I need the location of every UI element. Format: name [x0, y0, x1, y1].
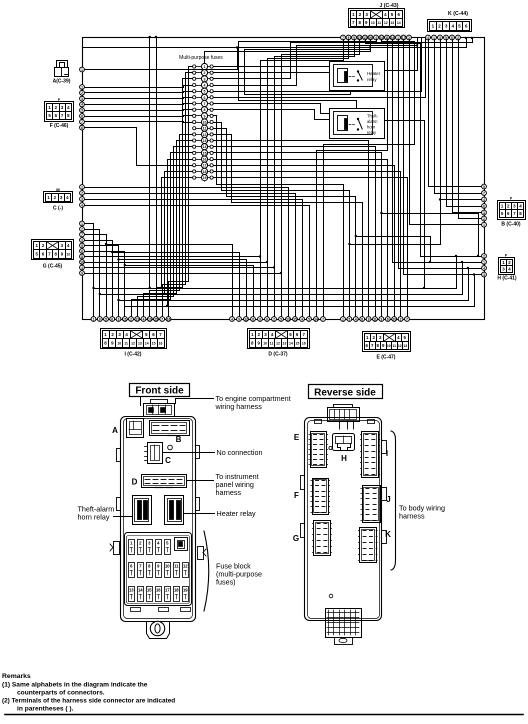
- svg-text:15: 15: [203, 151, 207, 155]
- wire: [85, 110, 193, 111]
- terminal I-5: [116, 317, 121, 322]
- terminal C-1: [80, 185, 85, 190]
- terminal D-5: [258, 317, 263, 322]
- svg-text:K (C-44): K (C-44): [448, 11, 468, 17]
- fuse slot 3: [147, 540, 153, 555]
- svg-text:F (C-46): F (C-46): [50, 123, 69, 129]
- svg-text:1: 1: [342, 317, 344, 321]
- terminal B-4: [482, 204, 487, 209]
- wire: [85, 200, 303, 317]
- fuse slot 11: [174, 563, 180, 578]
- heater relay RY1: [330, 62, 385, 91]
- connector F (C-46) mark: [58, 98, 61, 102]
- terminal G-3: [80, 232, 85, 237]
- terminal C-2: [80, 191, 85, 196]
- wire: [85, 194, 296, 317]
- wire: [124, 264, 254, 317]
- svg-text:14: 14: [145, 342, 149, 346]
- reverse small mark: [329, 594, 333, 598]
- svg-text:10: 10: [66, 253, 70, 257]
- connector G (C-45): [32, 240, 74, 270]
- terminal I-12: [160, 317, 165, 322]
- terminal D-12: [307, 317, 312, 322]
- wire: [447, 40, 482, 207]
- svg-text:1: 1: [93, 317, 95, 321]
- svg-text:11: 11: [203, 127, 207, 131]
- svg-text:19: 19: [203, 176, 207, 180]
- fuse slot 4: [156, 540, 162, 555]
- wire: [355, 235, 432, 263]
- front fuse block body: [121, 417, 196, 622]
- wire: [160, 178, 193, 290]
- svg-text:15: 15: [293, 317, 297, 321]
- wire: [205, 46, 372, 63]
- terminal B-7: [482, 222, 487, 227]
- connector J (C-43): [349, 9, 405, 28]
- fuse 4: [193, 82, 214, 88]
- fuse slot 15: [147, 587, 153, 602]
- terminal F-2: [80, 90, 85, 95]
- terminal D-13: [314, 317, 319, 322]
- connector K (C-44): [428, 20, 472, 32]
- wire: [214, 39, 419, 86]
- terminal D-1: [230, 317, 235, 322]
- wire: [163, 172, 193, 296]
- terminal I-6: [122, 317, 127, 322]
- svg-text:D: D: [132, 478, 138, 487]
- terminal G-6: [80, 249, 85, 254]
- terminal B-2: [482, 191, 487, 196]
- wire: [435, 40, 482, 194]
- svg-text:17: 17: [203, 164, 207, 168]
- terminal H-1: [482, 254, 487, 259]
- svg-text:3: 3: [118, 317, 120, 321]
- wire: [459, 40, 482, 219]
- terminal B-6: [482, 216, 487, 221]
- terminal H-2: [482, 260, 487, 265]
- terminal F-6: [80, 114, 85, 119]
- terminal I-11: [154, 317, 159, 322]
- bottom rule: [5, 714, 523, 716]
- wire: [214, 172, 401, 317]
- connector K (C-44) label: [448, 11, 468, 17]
- wire: [85, 272, 283, 274]
- terminal J-8: [379, 35, 384, 40]
- svg-text:18: 18: [203, 170, 207, 174]
- svg-text:13: 13: [129, 588, 134, 593]
- wire: [268, 40, 349, 317]
- svg-text:8: 8: [81, 255, 83, 259]
- wire: [85, 206, 310, 317]
- fuse 17: [193, 162, 214, 168]
- svg-text:15: 15: [147, 588, 152, 593]
- svg-text:12: 12: [183, 564, 188, 569]
- terminal K-3: [438, 35, 443, 40]
- svg-text:Reverse side: Reverse side: [314, 388, 376, 399]
- svg-text:14: 14: [138, 588, 143, 593]
- wire: [261, 40, 344, 317]
- terminal J-1: [341, 35, 346, 40]
- svg-text:counterparts of connectors.: counterparts of connectors.: [17, 690, 105, 697]
- connector C (-) mark: [56, 188, 60, 192]
- fuse 16: [193, 156, 214, 162]
- svg-text:7: 7: [483, 191, 485, 195]
- theft-alarm horn relay RY2: [330, 109, 385, 139]
- svg-text:16: 16: [203, 158, 207, 162]
- terminal I-13: [166, 317, 171, 322]
- svg-text:9: 9: [204, 114, 206, 118]
- connector H (C-41) mark: [505, 254, 508, 258]
- svg-text:Front side: Front side: [135, 386, 184, 397]
- svg-text:2: 2: [81, 227, 83, 231]
- wire: [214, 66, 330, 68]
- wire: [214, 39, 426, 98]
- wire: [214, 166, 395, 317]
- terminal F-8: [80, 125, 85, 130]
- svg-text:2: 2: [81, 91, 83, 95]
- terminal D-11: [300, 317, 305, 322]
- terminal G-2: [80, 227, 85, 232]
- wire: [85, 261, 269, 263]
- wire: [85, 224, 94, 317]
- svg-text:6: 6: [483, 204, 485, 208]
- wire: [239, 40, 377, 109]
- front connector D: [132, 475, 187, 488]
- svg-text:5: 5: [483, 185, 485, 189]
- svg-text:4: 4: [204, 84, 206, 88]
- svg-text:7: 7: [81, 120, 83, 124]
- wire: [85, 188, 289, 317]
- fuse slot 1: [129, 540, 135, 555]
- svg-text:1: 1: [81, 85, 83, 89]
- terminal E-11: [405, 317, 410, 322]
- svg-text:4: 4: [81, 203, 83, 207]
- svg-text:16: 16: [159, 342, 163, 346]
- wire: [105, 243, 233, 317]
- fuse 2: [193, 70, 214, 76]
- svg-text:5: 5: [204, 90, 206, 94]
- svg-text:13: 13: [203, 139, 207, 143]
- terminal J-6: [368, 35, 373, 40]
- wire: [155, 36, 157, 295]
- terminal I-1: [91, 317, 96, 322]
- terminal D-9: [286, 317, 291, 322]
- terminal E-8: [385, 317, 390, 322]
- terminal J-5: [363, 35, 368, 40]
- fuse slot 16: [156, 587, 162, 602]
- fuse 7: [193, 100, 214, 106]
- fuse 12: [193, 131, 214, 137]
- svg-text:harness: harness: [399, 512, 425, 521]
- terminal I-10: [147, 317, 152, 322]
- wire: [163, 73, 193, 317]
- terminal F-1: [80, 85, 85, 90]
- svg-text:8: 8: [252, 317, 254, 321]
- fuse slot 17: [165, 587, 171, 602]
- svg-text:K: K: [385, 530, 391, 539]
- svg-text:Heater relay: Heater relay: [217, 509, 257, 518]
- svg-text:14: 14: [203, 145, 207, 149]
- svg-text:7: 7: [161, 317, 163, 321]
- svg-text:13: 13: [283, 342, 287, 346]
- terminal J-7: [374, 35, 379, 40]
- fuse 19: [193, 175, 214, 181]
- terminal D-10: [293, 317, 298, 322]
- reverse side title: [309, 385, 383, 399]
- wire: [85, 92, 193, 93]
- svg-text:wiring harness: wiring harness: [215, 402, 263, 411]
- terminal I-3: [104, 317, 109, 322]
- svg-text:1: 1: [204, 65, 206, 69]
- reverse bottom connector: [326, 609, 362, 645]
- wire: [324, 40, 415, 317]
- wire: [385, 121, 426, 290]
- svg-text:8: 8: [204, 108, 206, 112]
- reverse connector K: [358, 528, 391, 563]
- fuse area side clips: [110, 542, 206, 612]
- fuse block boundary: [83, 38, 485, 320]
- fuse 3: [193, 76, 214, 82]
- terminal H-4: [482, 272, 487, 277]
- fuse 10: [193, 119, 214, 125]
- wire: [119, 267, 470, 301]
- svg-text:11: 11: [270, 342, 274, 346]
- wire: [214, 147, 376, 317]
- svg-text:5: 5: [81, 109, 83, 113]
- svg-text:Multi-purpose fuses: Multi-purpose fuses: [179, 55, 223, 61]
- svg-text:12: 12: [244, 317, 248, 321]
- wire: [157, 79, 193, 317]
- svg-text:8: 8: [81, 126, 83, 130]
- svg-text:horn: horn: [367, 125, 376, 130]
- wire: [150, 135, 193, 317]
- svg-text:4: 4: [231, 317, 233, 321]
- terminal G-8: [80, 260, 85, 265]
- svg-text:4: 4: [355, 317, 357, 321]
- terminal F-7: [80, 119, 85, 124]
- wire: [138, 147, 193, 317]
- svg-text:1: 1: [483, 223, 485, 227]
- fuse chain bus: [204, 63, 206, 181]
- reverse connector G: [293, 521, 332, 556]
- svg-text:13: 13: [390, 21, 394, 25]
- terminal G-9: [80, 265, 85, 270]
- wire: [169, 67, 193, 317]
- fuse slot 2: [138, 540, 144, 555]
- terminal J-2: [346, 35, 351, 40]
- svg-text:C: C: [165, 456, 171, 465]
- svg-text:Remarks: Remarks: [2, 673, 31, 680]
- wire: [85, 104, 193, 105]
- front bottom protrusion: [147, 621, 170, 638]
- svg-text:5: 5: [308, 317, 310, 321]
- svg-text:E: E: [294, 433, 300, 442]
- svg-text:14: 14: [397, 21, 401, 25]
- to instrument panel harness label: [188, 472, 259, 497]
- wire: [380, 212, 479, 257]
- svg-text:Theft-: Theft-: [367, 114, 379, 119]
- front heater relay: [165, 496, 184, 525]
- svg-text:F: F: [294, 491, 299, 500]
- svg-text:B: B: [176, 435, 182, 444]
- svg-text:13: 13: [286, 317, 290, 321]
- terminal D-2: [237, 317, 242, 322]
- connector A (C-39): [53, 61, 71, 85]
- wire: [117, 258, 246, 316]
- wire: [214, 37, 474, 79]
- wire: [214, 135, 363, 317]
- terminal E-7: [379, 317, 384, 322]
- wire: [214, 153, 382, 317]
- terminal G-10: [80, 271, 85, 276]
- terminal G-5: [80, 243, 85, 248]
- terminal I-7: [129, 317, 134, 322]
- wire: [214, 160, 388, 317]
- terminal B-1: [482, 184, 487, 189]
- fuse 15: [193, 150, 214, 156]
- svg-text:H: H: [341, 454, 347, 463]
- wire: [166, 160, 193, 308]
- svg-text:9: 9: [81, 271, 83, 275]
- front theft-alarm horn relay: [133, 496, 152, 525]
- terminal F-3: [80, 96, 85, 101]
- terminal D-8: [279, 317, 284, 322]
- fuse 18: [193, 168, 214, 174]
- svg-text:12: 12: [384, 21, 388, 25]
- terminal B-5: [482, 210, 487, 215]
- reverse connector J: [361, 486, 391, 523]
- terminal E-10: [398, 317, 403, 322]
- svg-text:3: 3: [204, 77, 206, 81]
- terminal G-4: [80, 238, 85, 243]
- wire: [85, 241, 113, 317]
- terminal D-14: [321, 317, 326, 322]
- svg-text:G: G: [293, 534, 299, 543]
- terminal C-4: [80, 203, 85, 208]
- wire: [366, 40, 482, 257]
- svg-text:11: 11: [373, 317, 377, 321]
- svg-text:in parentheses ( ).: in parentheses ( ).: [17, 706, 74, 713]
- svg-text:A: A: [112, 426, 118, 435]
- wire: [85, 46, 239, 69]
- connector B (C-40): [498, 201, 526, 228]
- terminal E-6: [373, 317, 378, 322]
- fuse slot 10: [165, 563, 171, 578]
- wire: [83, 37, 468, 48]
- wire: [85, 230, 100, 317]
- svg-text:8: 8: [361, 317, 363, 321]
- wire: [214, 129, 356, 317]
- svg-text:horn relay: horn relay: [78, 513, 110, 522]
- svg-text:12: 12: [131, 342, 135, 346]
- front fuse area box: [125, 533, 192, 606]
- connector F (C-46): [45, 102, 74, 129]
- svg-text:harness: harness: [216, 488, 242, 497]
- fuse slot 13: [129, 587, 135, 602]
- terminal G-7: [80, 254, 85, 259]
- reverse connector F: [294, 479, 330, 515]
- svg-text:6: 6: [81, 114, 83, 118]
- wire: [317, 40, 388, 317]
- svg-text:G (C-45): G (C-45): [43, 263, 63, 269]
- theft-alarm horn relay label: [78, 505, 133, 522]
- svg-text:3: 3: [81, 97, 83, 101]
- wire: [149, 36, 151, 289]
- terminal K-1: [426, 35, 431, 40]
- svg-text:H (C-41): H (C-41): [497, 276, 517, 282]
- terminal E-4: [360, 317, 365, 322]
- svg-text:10: 10: [117, 342, 121, 346]
- fuse slot 9: [156, 563, 162, 578]
- wire: [214, 104, 330, 114]
- terminal I-8: [135, 317, 140, 322]
- front connector C: [145, 443, 173, 466]
- svg-text:6: 6: [111, 317, 113, 321]
- wire: [85, 116, 193, 117]
- terminal D-7: [272, 317, 277, 322]
- wire: [214, 178, 408, 317]
- svg-text:1: 1: [81, 185, 83, 189]
- fuse block label: [204, 531, 262, 611]
- terminal A-1: [80, 67, 85, 72]
- svg-text:1: 1: [483, 260, 485, 264]
- wire: [85, 246, 120, 302]
- terminal J-9: [385, 35, 390, 40]
- svg-text:11: 11: [392, 344, 396, 348]
- to engine compartment harness label: [176, 394, 291, 411]
- fuse 13: [193, 137, 214, 143]
- svg-text:No connection: No connection: [217, 448, 263, 457]
- wire: [348, 198, 441, 245]
- fuse 1: [193, 63, 214, 69]
- svg-text:A(C-39): A(C-39): [53, 79, 71, 85]
- svg-text:(1) Same alphabets in the dia: (1) Same alphabets in the diagram indica…: [2, 682, 148, 689]
- wire: [99, 261, 464, 295]
- svg-text:5: 5: [81, 244, 83, 248]
- fuse 14: [193, 144, 214, 150]
- fuse 8: [193, 107, 214, 113]
- svg-text:relay: relay: [367, 77, 377, 82]
- terminal F-4: [80, 102, 85, 107]
- reverse connector I: [360, 432, 388, 478]
- svg-text:10: 10: [387, 344, 391, 348]
- svg-text:19: 19: [183, 588, 188, 593]
- connector H (C-41): [497, 258, 517, 282]
- terminal J-10: [390, 35, 395, 40]
- svg-text:13: 13: [135, 317, 139, 321]
- connector E (C-47): [363, 332, 411, 361]
- multi-purpose fuses label: [179, 55, 223, 61]
- wire: [441, 40, 482, 200]
- fuse 9: [193, 113, 214, 119]
- wire: [214, 110, 330, 120]
- svg-text:10: 10: [371, 21, 375, 25]
- heater relay label: [185, 509, 257, 518]
- terminal E-1: [341, 317, 346, 322]
- wire: [125, 273, 476, 306]
- svg-text:16: 16: [167, 317, 171, 321]
- svg-text:I (C-42): I (C-42): [125, 352, 142, 358]
- wire: [111, 251, 240, 317]
- wire: [214, 116, 344, 317]
- svg-text:5: 5: [349, 317, 351, 321]
- svg-text:15: 15: [154, 317, 158, 321]
- wire: [282, 40, 360, 317]
- wire: [92, 255, 457, 289]
- fuse 5: [193, 88, 214, 94]
- wire: [85, 122, 193, 123]
- svg-text:2: 2: [483, 217, 485, 221]
